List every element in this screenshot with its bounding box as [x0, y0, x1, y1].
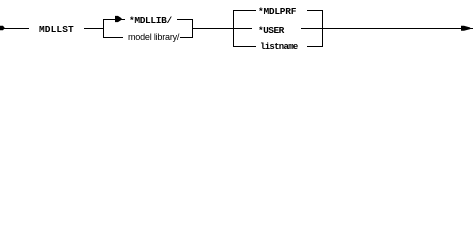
- wire: top branch line to rejoin: [177, 19, 193, 20]
- end arrowhead: [0, 0, 474, 56]
- wire: top option line from split: [233, 10, 256, 11]
- wire: end tail: [469, 28, 473, 29]
- wire: main line after MDLLST: [84, 28, 104, 29]
- keyword MDLLST: [39, 24, 74, 35]
- keyword *USER: [258, 25, 284, 36]
- wire: main line between choices: [192, 28, 252, 29]
- arrowhead on top branch: [0, 0, 130, 26]
- wire: bottom option line from split: [233, 46, 256, 47]
- wire: bottom option line to rejoin: [307, 46, 323, 47]
- wire: bottom branch line to rejoin: [180, 37, 193, 38]
- node: rejoin of list choice: [322, 10, 323, 47]
- keyword *MDLPRF: [258, 6, 296, 17]
- wire: main line start segment: [0, 28, 29, 29]
- wire: main line after *USER: [301, 28, 461, 29]
- variable model library/: [128, 32, 179, 42]
- node: rejoin of library choice: [192, 19, 193, 38]
- wire: bottom branch line from split: [103, 37, 123, 38]
- variable listname: [260, 42, 298, 52]
- wire: top option line to rejoin: [307, 10, 323, 11]
- keyword *MDLLIB/: [129, 15, 172, 26]
- node: split of library choice: [103, 19, 104, 38]
- node: split of list choice: [233, 10, 234, 47]
- start terminal bullet: [0, 0, 10, 56]
- wire: top branch line to arrow: [103, 19, 125, 20]
